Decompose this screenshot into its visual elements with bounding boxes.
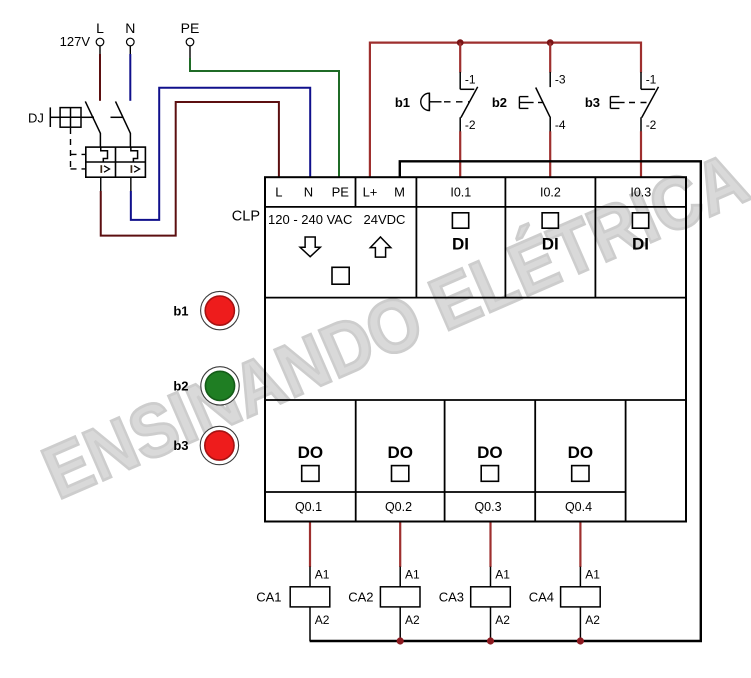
terminal label I0.3 [630, 186, 651, 200]
wire rail drop to b1 [459, 43, 461, 73]
svg-text:A1: A1 [405, 568, 420, 582]
label Q0.1 [295, 500, 322, 514]
wire PE black stub [189, 46, 191, 59]
DO square Q0.2 [392, 466, 409, 482]
terminal label N [304, 185, 313, 200]
label DO Q0.4 [568, 443, 594, 462]
CLP divider PE/L+ [355, 177, 357, 207]
label lamp b2 [173, 379, 188, 394]
label CA2 A2 [405, 613, 420, 627]
label DO Q0.2 [387, 443, 413, 462]
svg-text:b2: b2 [173, 379, 188, 394]
label b1 [395, 95, 410, 110]
label b2 pin -4 [555, 118, 566, 132]
CLP divider Q0.1/Q0.2 [355, 400, 357, 522]
svg-text:-4: -4 [555, 118, 566, 132]
selector b2 head [519, 97, 546, 109]
label lamp b3 [173, 438, 188, 453]
wire rail drop to b2 [549, 43, 551, 73]
wire b2 to I0.2 [549, 131, 551, 176]
svg-text:DI: DI [452, 235, 469, 254]
label Q0.3 [474, 500, 501, 514]
svg-text:DI: DI [632, 235, 649, 254]
label Q0.2 [385, 500, 412, 514]
CLP divider Q0.3/Q0.4 [534, 400, 536, 522]
label DI I0.1 [452, 235, 469, 254]
wire PE green to CLP [190, 58, 339, 177]
CLP divider Q0.2/Q0.3 [444, 400, 446, 522]
wire N navy routing to CLP [131, 88, 310, 220]
selector b3 head [610, 97, 650, 109]
label DO Q0.1 [298, 443, 324, 462]
label b3 pin -1 [646, 73, 657, 87]
label b2 [492, 95, 507, 110]
wire N black stub [129, 46, 131, 55]
svg-text:A2: A2 [495, 613, 510, 627]
label 127V [60, 34, 91, 49]
svg-text:-1: -1 [646, 73, 657, 87]
junction dot CA2 bus [397, 637, 404, 644]
junction dot I0.1 rail [457, 39, 464, 46]
junction dot CA4 bus [577, 637, 584, 644]
svg-text:PE: PE [181, 20, 200, 36]
svg-text:DO: DO [477, 443, 503, 462]
svg-text:-2: -2 [465, 118, 476, 132]
svg-text:M: M [394, 185, 405, 200]
svg-text:Q0.1: Q0.1 [295, 500, 322, 514]
CLP terminal row divider [265, 206, 686, 208]
terminal L [96, 20, 104, 46]
magnetic element I> pole 1 [101, 165, 109, 173]
svg-text:b1: b1 [173, 303, 188, 318]
svg-text:CA4: CA4 [529, 590, 554, 605]
svg-text:b2: b2 [492, 95, 507, 110]
label DI I0.3 [632, 235, 649, 254]
junction dot CA3 bus [487, 637, 494, 644]
breaker trip linkage dashed [71, 128, 86, 169]
CLP divider I0.1/I0.2 [504, 177, 506, 297]
breaker pole 2 lower wire [129, 133, 131, 147]
svg-text:N: N [125, 20, 135, 36]
svg-text:b3: b3 [585, 95, 600, 110]
svg-text:-2: -2 [646, 118, 657, 132]
label CA1 [256, 590, 281, 605]
svg-text:Q0.2: Q0.2 [385, 500, 412, 514]
svg-text:I0.2: I0.2 [540, 186, 561, 200]
DI square I0.1 [452, 213, 468, 228]
watermark ENSINANDO ELETRICA [32, 137, 751, 515]
DI square I0.2 [542, 213, 558, 228]
wire L maroon down to breaker [99, 54, 101, 101]
svg-text:DJ: DJ [28, 111, 44, 126]
terminal PE [181, 20, 200, 46]
svg-text:DO: DO [568, 443, 594, 462]
svg-text:N: N [304, 185, 313, 200]
CLP DI row bottom divider [265, 297, 686, 299]
M rail black box [310, 161, 701, 641]
wire b1 to I0.1 [459, 131, 461, 176]
DI square I0.3 [632, 213, 648, 228]
red rail L+ top [370, 43, 641, 177]
label CA2 [348, 590, 373, 605]
label b1 pin -2 [465, 118, 476, 132]
svg-text:CA1: CA1 [256, 590, 281, 605]
pushbutton b1 head [421, 93, 469, 110]
wire Q0.4 to CA4 [579, 523, 581, 568]
junction dot I0.2 rail [547, 39, 554, 46]
DO square Q0.3 [481, 466, 498, 482]
CLP Q row divider [265, 491, 626, 493]
svg-text:A1: A1 [585, 568, 600, 582]
breaker pole 2 bottom stub [130, 177, 132, 192]
svg-text:DI: DI [542, 235, 559, 254]
svg-text:120 - 240 VAC: 120 - 240 VAC [268, 212, 352, 227]
contact b2 NO [536, 72, 551, 132]
svg-text:Q0.4: Q0.4 [565, 500, 592, 514]
label DO Q0.3 [477, 443, 503, 462]
thermal element pole 2 [131, 147, 138, 162]
label CA2 A1 [405, 568, 420, 582]
svg-text:A2: A2 [405, 613, 420, 627]
svg-text:b1: b1 [395, 95, 410, 110]
thermal element pole 1 [101, 147, 108, 162]
svg-text:A1: A1 [495, 568, 510, 582]
DO square Q0.4 [572, 466, 589, 482]
contactor CA3 coil [471, 567, 511, 641]
label 120-240 VAC [268, 212, 352, 227]
contactor CA4 coil [561, 567, 601, 641]
label Q0.4 [565, 500, 592, 514]
breaker DJ handle [50, 107, 123, 127]
svg-text:L: L [275, 185, 282, 200]
CLP divider Q0.4/right [625, 400, 627, 522]
svg-text:DO: DO [387, 443, 413, 462]
terminal label PE [332, 185, 350, 200]
magnetic element I> pole 2 [131, 165, 139, 173]
svg-text:b3: b3 [173, 438, 188, 453]
svg-text:Q0.3: Q0.3 [474, 500, 501, 514]
terminal label I0.1 [450, 186, 471, 200]
label DJ [28, 111, 44, 126]
label 24VDC [364, 212, 406, 227]
CLP DO row top divider [265, 399, 686, 401]
label CA4 [529, 590, 554, 605]
wire Q0.2 to CA2 [399, 523, 401, 568]
label CA3 [439, 590, 464, 605]
terminal N [125, 20, 135, 46]
label CA4 A2 [585, 613, 600, 627]
label CA4 A1 [585, 568, 600, 582]
lamp b2 green [201, 367, 239, 405]
svg-text:127V: 127V [60, 34, 91, 49]
label CA1 A2 [315, 613, 330, 627]
svg-text:-1: -1 [465, 73, 476, 87]
arrow up VDC [370, 237, 391, 257]
wire Q0.1 to CA1 [309, 523, 311, 568]
breaker trip unit box [86, 147, 146, 177]
CLP divider M/I0.1 [415, 177, 417, 297]
label DI I0.2 [542, 235, 559, 254]
label b3 [585, 95, 600, 110]
breaker pole 1 blade [85, 101, 100, 133]
wire Q0.3 to CA3 [489, 523, 491, 568]
svg-text:CA3: CA3 [439, 590, 464, 605]
svg-text:24VDC: 24VDC [364, 212, 406, 227]
contactor CA1 coil [290, 567, 330, 641]
wire L black stub [99, 46, 101, 55]
DO square Q0.1 [302, 466, 319, 482]
lamp b1 red [201, 291, 239, 329]
label CA3 A2 [495, 613, 510, 627]
svg-text:PE: PE [332, 185, 350, 200]
terminal label I0.2 [540, 186, 561, 200]
breaker pole 2 blade [116, 101, 131, 133]
svg-text:A2: A2 [585, 613, 600, 627]
small square VAC cell [332, 267, 349, 284]
wire b3 to I0.3 [640, 131, 642, 176]
svg-text:-3: -3 [555, 73, 566, 87]
svg-text:I0.1: I0.1 [450, 186, 471, 200]
svg-text:CA2: CA2 [348, 590, 373, 605]
label CLP [232, 208, 260, 224]
label b3 pin -2 [646, 118, 657, 132]
contact b3 NC [641, 72, 659, 132]
contactor CA2 coil [380, 567, 420, 641]
CLP divider I0.2/I0.3 [594, 177, 596, 297]
contact b1 NC [460, 72, 478, 132]
arrow down VAC [300, 237, 320, 257]
label lamp b1 [173, 303, 188, 318]
svg-text:CLP: CLP [232, 208, 260, 224]
lamp b3 red [200, 426, 238, 464]
svg-text:L+: L+ [363, 185, 378, 200]
CLP outer box [265, 177, 686, 521]
svg-text:A1: A1 [315, 568, 330, 582]
breaker pole 1 bottom stub [100, 177, 102, 192]
terminal label L+ [363, 185, 378, 200]
terminal label L [275, 185, 282, 200]
label CA1 A1 [315, 568, 330, 582]
svg-text:I0.3: I0.3 [630, 186, 651, 200]
terminal label M [394, 185, 405, 200]
svg-text:A2: A2 [315, 613, 330, 627]
label b1 pin -1 [465, 73, 476, 87]
wire L maroon routing to CLP [101, 102, 279, 236]
label CA3 A1 [495, 568, 510, 582]
label b2 pin -3 [555, 73, 566, 87]
svg-text:DO: DO [298, 443, 324, 462]
svg-text:L: L [96, 20, 104, 36]
breaker pole 1 lower wire [99, 133, 101, 147]
wire N navy down to breaker [129, 54, 131, 101]
